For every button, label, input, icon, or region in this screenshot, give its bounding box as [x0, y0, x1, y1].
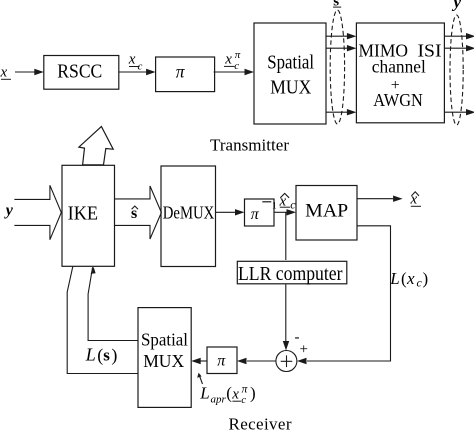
svg-text:MUX: MUX: [143, 351, 184, 371]
svg-text:π: π: [217, 353, 226, 370]
svg-text:c: c: [234, 60, 239, 72]
svg-text:x: x: [128, 52, 136, 68]
svg-text:s: s: [103, 346, 110, 365]
svg-text:Spatial: Spatial: [267, 51, 314, 73]
svg-text:x: x: [224, 52, 232, 68]
svg-text:Transmitter: Transmitter: [210, 135, 289, 154]
svg-text:IKE: IKE: [68, 203, 99, 225]
svg-text:x: x: [0, 64, 8, 80]
svg-text:π: π: [251, 206, 260, 223]
svg-text:DeMUX: DeMUX: [163, 203, 215, 223]
svg-text:+: +: [300, 342, 308, 358]
svg-text:MUX: MUX: [270, 77, 311, 99]
svg-text:L: L: [199, 384, 209, 403]
svg-text:x: x: [231, 387, 239, 403]
svg-text:RSCC: RSCC: [57, 61, 102, 83]
svg-text:L: L: [389, 269, 399, 288]
svg-text:c: c: [290, 197, 296, 211]
svg-text:apr: apr: [211, 393, 227, 405]
svg-text:y: y: [4, 202, 14, 219]
svg-text:Receiver: Receiver: [229, 414, 292, 430]
svg-text:): ): [423, 269, 429, 288]
svg-text:(: (: [97, 345, 103, 366]
svg-text:channel: channel: [372, 57, 426, 77]
svg-text:s: s: [333, 0, 339, 9]
svg-text:AWGN: AWGN: [373, 90, 423, 110]
svg-text:y: y: [452, 0, 462, 12]
svg-text:MAP: MAP: [305, 201, 348, 222]
svg-text:c: c: [241, 394, 246, 406]
svg-text:Spatial: Spatial: [141, 329, 188, 349]
svg-text:): ): [250, 384, 256, 403]
svg-text:L: L: [85, 345, 96, 365]
svg-text:π: π: [176, 61, 186, 81]
svg-text:1: 1: [272, 202, 277, 212]
svg-text:LLR computer: LLR computer: [238, 263, 343, 285]
svg-text:π: π: [235, 49, 241, 61]
svg-text:): ): [111, 345, 117, 366]
svg-text:x: x: [406, 269, 415, 288]
